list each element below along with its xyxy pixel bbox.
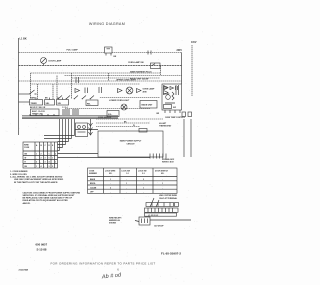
svg-text:L1 GD N L2: L1 GD N L2 [148, 215, 158, 217]
wire right riser L2 [181, 53, 183, 85]
box pin ticks [165, 110, 180, 113]
svg-text:1: 1 [36, 154, 37, 156]
svg-text:INSULATION OR ITS EQUIVALENT A: INSULATION OR ITS EQUIVALENT AS LISTED [23, 199, 69, 202]
wire console drop x108 [108, 73, 110, 81]
svg-text:CLEAN: CLEAN [90, 186, 97, 189]
oven control box U1 [162, 84, 182, 110]
svg-text:21JA7AN: 21JA7AN [19, 269, 29, 272]
svg-text:12# WOOF: 12# WOOF [154, 225, 164, 227]
svg-text:W: W [133, 125, 135, 127]
label oven lamp 40w [143, 88, 156, 94]
svg-text:2: 2 [110, 187, 111, 189]
svg-text:1: 1 [49, 158, 50, 160]
svg-text:230V: 230V [177, 50, 183, 52]
wire bus line 2 [22, 116, 118, 118]
corner mark [19, 269, 29, 272]
doc number [36, 243, 48, 247]
label oven lamp switch [128, 61, 144, 64]
scan noise [2, 3, 214, 281]
svg-text:2: 2 [41, 158, 42, 160]
footer handwriting [101, 272, 123, 280]
switch box S3 [76, 123, 88, 137]
doc date [37, 247, 47, 251]
svg-text:40W: 40W [143, 90, 147, 93]
wire table 2 grid [88, 168, 178, 193]
wire top feed right [112, 52, 182, 54]
svg-text:4: 4 [49, 161, 50, 164]
label sensor row 2 [124, 121, 135, 127]
wire console drop left [30, 73, 32, 99]
wire L1 vertical bus [18, 38, 20, 135]
wire table 1 grid [23, 142, 58, 168]
wire console top [31, 72, 161, 74]
wire under box 2 [58, 157, 151, 159]
svg-text:1: 1 [52, 158, 53, 160]
plate number [161, 252, 181, 256]
resistor network marks [62, 110, 79, 114]
label fuse code [114, 56, 117, 58]
wire bus line 1 [22, 115, 118, 117]
wire hi-limit right leg [190, 119, 192, 157]
connector arrow A0 [75, 89, 80, 93]
node 115V label [191, 41, 197, 44]
wire console drop mid [56, 76, 58, 100]
svg-text:2: 2 [52, 166, 53, 168]
svg-text:2: 2 [41, 154, 42, 156]
terminal strip bar2 [145, 213, 177, 217]
svg-text:SW: SW [173, 107, 176, 109]
svg-text:3: 3 [49, 166, 50, 168]
svg-text:OVEN LAMP: OVEN LAMP [143, 88, 156, 91]
caution paragraph [23, 191, 81, 204]
svg-text:USE ONLY REPLACEMENT WIRE AS S: USE ONLY REPLACEMENT WIRE AS SPECIFIED [14, 178, 64, 181]
connector arrow A1 [118, 89, 123, 93]
label broil unit [130, 77, 148, 80]
svg-text:LOWER OVEN LIGHT: LOWER OVEN LIGHT [109, 100, 130, 102]
sensor box terminals [150, 154, 166, 159]
footer ordering line [50, 261, 155, 265]
svg-text:1 2 3 4: 1 2 3 4 [62, 106, 68, 109]
box top ticks [36, 98, 63, 100]
wire sensor feed [75, 129, 98, 131]
svg-text:OVEN LAMP SW: OVEN LAMP SW [128, 61, 144, 64]
svg-text:BAKE: BAKE [90, 178, 96, 181]
svg-text:1: 1 [49, 154, 50, 156]
svg-text:4: 4 [41, 165, 42, 168]
lamp L2 upper oven [126, 87, 133, 94]
svg-text:BROIL: BROIL [90, 183, 96, 185]
leader to block [135, 221, 139, 222]
control U2 clock box [31, 109, 60, 116]
notes under table [10, 171, 64, 184]
connector CN1 [99, 87, 102, 93]
svg-text:SERVICING. IF ORIGINAL WIRE AS: SERVICING. IF ORIGINAL WIRE AS SUPPLIED … [23, 194, 76, 197]
terminal strip T1 [176, 85, 179, 95]
svg-text:FUS. 5 AMP: FUS. 5 AMP [67, 48, 79, 51]
label receptacle [109, 218, 122, 225]
wire bus line 3 [22, 118, 118, 120]
harness elbows [44, 136, 75, 151]
svg-text:MAIN POWER SUPPLY: MAIN POWER SUPPLY [120, 140, 142, 143]
terminal ticks on feed [148, 51, 151, 55]
wire hi-limit left leg [183, 119, 185, 157]
svg-text:3: 3 [45, 158, 46, 160]
svg-text:2-3: 2-3 [142, 173, 145, 175]
switch S5 lamp switch [151, 63, 161, 69]
table 2 header text [89, 171, 169, 194]
svg-text:3: 3 [45, 162, 46, 164]
svg-text:600 9957: 600 9957 [36, 243, 48, 247]
wire row 84 [30, 83, 140, 85]
wire lamp row [19, 65, 182, 67]
lamp L3 lower oven [121, 104, 127, 110]
wire top feed left [19, 52, 105, 54]
wire row 97.5 [100, 97, 160, 99]
svg-text:1: 1 [55, 162, 56, 164]
wire sensor row 2 [96, 122, 150, 124]
svg-text:1: 1 [126, 183, 127, 185]
switch S1 door switch [29, 90, 36, 95]
label upper oven light [116, 80, 136, 82]
node 230V label [177, 50, 183, 52]
contact number row [62, 106, 68, 109]
title WIRING DIAGRAM [89, 22, 125, 26]
label lower oven light [109, 100, 130, 102]
label power cord [154, 225, 164, 227]
svg-text:WHITE 1 BOX: WHITE 1 BOX [162, 161, 174, 163]
svg-text:TIMER: TIMER [31, 103, 38, 105]
terminal detail leaders [150, 198, 159, 207]
svg-text:BE REPLACED, USE SAME GAUGE AN: BE REPLACED, USE SAME GAUGE AND TYPE OF [23, 197, 73, 200]
svg-text:OVEN TEMP CONTROL: OVEN TEMP CONTROL [165, 117, 186, 119]
label FUS 5 AMP [67, 48, 79, 51]
wire lampsw drop [160, 66, 162, 76]
svg-text:S-12-88: S-12-88 [37, 247, 47, 251]
svg-text:SHOWN: SHOWN [109, 223, 117, 225]
svg-text:1- CODE NUMBER: 1- CODE NUMBER [10, 171, 28, 173]
svg-text:ONLY AT TERMINAL: ONLY AT TERMINAL [159, 197, 178, 200]
wire console drop right [71, 73, 73, 99]
wire sensor row 3 [96, 126, 140, 128]
fuse F1 5A [105, 47, 113, 56]
node L1 label [20, 37, 27, 40]
svg-text:NO.: NO. [109, 173, 113, 175]
selector bank top labels [31, 96, 61, 99]
svg-text:3- ALL WIRING 105 C MIN. EXCEP: 3- ALL WIRING 105 C MIN. EXCEPT WHERE NO… [10, 176, 63, 179]
svg-text:2- WIRE COLORS: 2- WIRE COLORS [10, 174, 27, 176]
svg-text:RELAY: RELAY [164, 93, 171, 96]
svg-text:CAUTION: DISCONNECT FROM POWER: CAUTION: DISCONNECT FROM POWER SUPPLY BE… [23, 191, 81, 194]
svg-text:OVEN SENSOR: OVEN SENSOR [98, 117, 112, 119]
switch glyph row [58, 96, 94, 100]
wire sensor row 1 [96, 118, 163, 120]
harness verticals [60, 119, 75, 151]
svg-text:NUMBER: NUMBER [89, 173, 98, 175]
label oven temp control [165, 117, 186, 119]
svg-text:SW: SW [58, 103, 61, 105]
wire drop x53 [52, 84, 54, 99]
wire neutral riser N [191, 45, 193, 96]
terminal strip bar1 [145, 208, 179, 212]
svg-text:115V: 115V [191, 41, 197, 44]
hi-limit top squares [182, 112, 192, 117]
svg-text:1-2: 1-2 [126, 173, 129, 175]
svg-text:2: 2 [55, 154, 56, 156]
svg-text:1: 1 [143, 187, 144, 189]
svg-text:2: 2 [36, 162, 37, 164]
svg-text:NO.: NO. [161, 173, 165, 175]
connector arrow A2 [137, 89, 142, 93]
table 1 header text [24, 144, 56, 168]
label door lamp [49, 60, 62, 63]
ground strip bar0 [146, 203, 179, 207]
svg-text:FOR ORDERING INFORMATION REFER: FOR ORDERING INFORMATION REFER TO PARTS … [50, 261, 155, 265]
svg-text:CIRCUIT: CIRCUIT [126, 144, 135, 146]
wire power cord [150, 219, 191, 221]
wire row 108.5 [65, 108, 150, 110]
svg-text:2: 2 [143, 179, 144, 181]
label BR marks [157, 113, 160, 115]
svg-text:UPPER OVEN LIGHT: UPPER OVEN LIGHT [116, 80, 136, 82]
sensor box notch [139, 129, 147, 133]
svg-text:BAKE: BAKE [31, 96, 37, 99]
console ticks [76, 77, 79, 83]
relay K1 box [140, 101, 157, 109]
wire row 81 [19, 80, 182, 82]
oven sensor box U3 [98, 131, 163, 157]
lamp DL1 door lamp [41, 58, 47, 66]
connector pair A3 [164, 86, 169, 95]
svg-text:1: 1 [162, 183, 163, 185]
svg-text:W: W [25, 158, 27, 160]
label sensor row [98, 117, 112, 119]
svg-text:USE COPPER WIRE: USE COPPER WIRE [159, 195, 178, 197]
bus taps [30, 114, 54, 116]
label terminal codes [162, 158, 175, 163]
selector labels row [30, 107, 46, 109]
svg-text:MAIN HARNESS PLUG: MAIN HARNESS PLUG [130, 71, 152, 74]
svg-text:WIRING DIAGRAM: WIRING DIAGRAM [89, 22, 125, 26]
terminal block box [139, 217, 150, 225]
wire drop x37 [37, 84, 39, 99]
svg-text:FL-95-55907-2: FL-95-55907-2 [161, 252, 181, 256]
wire console second [65, 75, 182, 77]
svg-text:BAKE UNIT: BAKE UNIT [142, 104, 154, 107]
stub to timer [19, 101, 30, 103]
svg-text:THERMOSTAT: THERMOSTAT [159, 125, 172, 128]
label main harness [130, 71, 152, 74]
svg-text:CODE: CODE [24, 147, 30, 149]
terminal detail labels [159, 195, 178, 200]
selector switch bank SW2 [30, 100, 69, 106]
wire row 78 [72, 77, 161, 79]
svg-text:1: 1 [110, 179, 111, 181]
wire under box 1 [58, 153, 99, 155]
svg-text:IN THE PARTS LIST FOR THIS APP: IN THE PARTS LIST FOR THIS APPLIANCE. [14, 181, 58, 184]
svg-text:1: 1 [36, 166, 37, 168]
svg-text:DOOR LAMP: DOOR LAMP [49, 60, 62, 63]
connector ticks mid [85, 88, 88, 94]
contact box right [86, 100, 98, 106]
svg-text:L1 BK: L1 BK [20, 37, 27, 40]
footer page number [117, 267, 119, 271]
wire row 94 [19, 93, 30, 95]
label hi-limit [159, 123, 172, 128]
connector chevrons [89, 119, 93, 135]
svg-text:ABOVE.: ABOVE. [23, 202, 31, 205]
solenoid box [107, 111, 119, 117]
